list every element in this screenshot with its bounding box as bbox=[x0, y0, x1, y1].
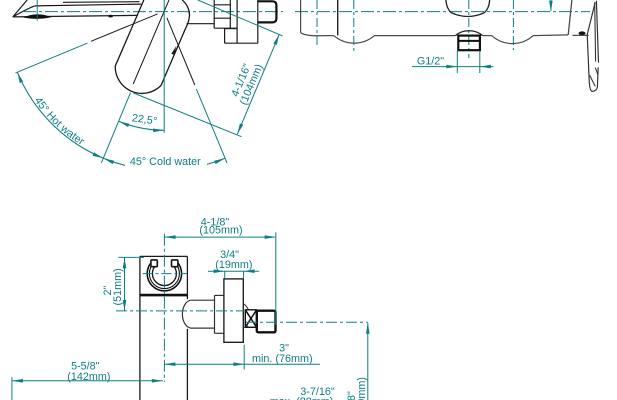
aerator (dark lens under spout) bbox=[25, 15, 50, 19]
svg-text:22,5°: 22,5° bbox=[131, 112, 158, 127]
body block vertical bbox=[236, 0, 238, 43]
hose connection nut (thick) bbox=[257, 311, 276, 333]
45deg cold water arc (left part) bbox=[103, 158, 125, 165]
142mm dim left extension bbox=[11, 377, 13, 400]
G1/2 dim extension lines bbox=[456, 51, 458, 73]
45deg cold water arc (right part) bbox=[207, 158, 225, 164]
handle lever (side view, capsule) bbox=[115, 0, 189, 93]
svg-text:(51mm): (51mm) bbox=[112, 268, 124, 305]
hot extreme handle line (black) bbox=[91, 14, 158, 41]
svg-text:45° Hot water: 45° Hot water bbox=[32, 95, 87, 148]
front body left cap joint bbox=[337, 0, 339, 35]
port centerline bbox=[468, 0, 470, 58]
bar vertical centerline bbox=[163, 234, 165, 382]
svg-text:max. (88mm): max. (88mm) bbox=[270, 396, 334, 400]
left union centerline bbox=[353, 0, 355, 52]
escutcheon bottom edge bbox=[187, 23, 215, 25]
body/nut joint vertical bbox=[257, 0, 259, 43]
side-view horizontal centerline bbox=[23, 11, 283, 13]
22.5deg arc with arrowheads bbox=[119, 121, 165, 130]
outlet boss (front view dome) bbox=[446, 0, 490, 17]
cut-off vertical dimension line (bottom right) bbox=[367, 323, 369, 400]
supply elbow cylinder bbox=[191, 299, 215, 301]
front body bottom edge with unions and port bbox=[301, 33, 334, 36]
svg-text:(19mm): (19mm) bbox=[215, 259, 252, 271]
cold radial extension line bbox=[196, 89, 227, 163]
spout outline (side view) bbox=[13, 0, 27, 17]
wall flange (side view) bbox=[224, 279, 243, 342]
holder head top edge bbox=[140, 255, 188, 257]
C-clip right horn tip bbox=[172, 260, 178, 267]
svg-text:(105mm): (105mm) bbox=[199, 225, 242, 237]
G1/2 shower port box (front view, thick) bbox=[458, 36, 480, 51]
front body left edge bbox=[300, 0, 302, 33]
cold arc arrowheads bbox=[103, 158, 114, 164]
wall bar left edge bbox=[139, 256, 141, 400]
45deg hot water arc bbox=[17, 72, 103, 158]
51mm dim top extension bbox=[118, 256, 144, 258]
label 4-1/16in (104mm), rotated bbox=[227, 58, 265, 107]
pin hole dot on spout bbox=[108, 15, 113, 18]
104mm dim extension line (lower, from lever tip) bbox=[134, 93, 242, 137]
svg-text:G1/2": G1/2" bbox=[417, 56, 444, 68]
C-clip middle ring bbox=[149, 263, 179, 289]
142mm dimension line with arrows bbox=[12, 380, 163, 382]
right union centerline bbox=[512, 0, 514, 50]
hand-shower C-clip (outer ring) bbox=[147, 261, 181, 291]
elbow step ring bbox=[214, 295, 216, 333]
holder head bottom edge (thick) bbox=[140, 294, 188, 297]
front-view horizontal centerline bbox=[295, 11, 590, 13]
C-clip inner circle bbox=[152, 265, 176, 285]
shower port box (side view) bbox=[225, 28, 238, 30]
hot radial extension line bbox=[16, 43, 88, 73]
handle set-screw dot (front view) bbox=[579, 31, 586, 35]
104mm dimension line with arrowheads bbox=[237, 34, 279, 134]
G1/2 dimension line with arrows bbox=[412, 66, 494, 68]
front body right cap (slanted) bbox=[568, 0, 572, 35]
19mm dim extension lines bbox=[224, 271, 226, 278]
105mm dimension line with arrows bbox=[165, 236, 275, 238]
threaded nipple with cross-hatch bbox=[245, 310, 256, 328]
wall bar right edge (interrupted by elbow) bbox=[186, 256, 188, 299]
19mm dimension line with outside arrows bbox=[208, 270, 259, 272]
76mm dim right extension bbox=[243, 345, 245, 370]
handle blade (front view) bbox=[587, 2, 595, 34]
short body line under dot bbox=[573, 34, 589, 36]
cut-off vertical dimension arrow (right) bbox=[550, 0, 552, 11]
104mm dim extension line (upper) bbox=[198, 0, 283, 36]
wall union nut (side view, thick) bbox=[258, 1, 277, 22]
svg-text:min. (76mm): min. (76mm) bbox=[252, 353, 313, 365]
outlet axis centerline bbox=[246, 321, 368, 323]
hot arc arrowheads bbox=[17, 72, 23, 83]
front-view vertical centerline x=317 bbox=[316, 0, 318, 48]
svg-text:(149mm): (149mm) bbox=[356, 377, 368, 400]
76mm dimension line with arrows and text underline bbox=[164, 363, 320, 365]
svg-text:45° Cold water: 45° Cold water bbox=[130, 156, 201, 168]
vertical reference centerline through pivot bbox=[163, 0, 165, 133]
lever centerline (black) bbox=[133, 0, 169, 84]
lever-axis radial extension line bbox=[101, 93, 130, 163]
elbow axis centerline bbox=[116, 310, 244, 312]
cartridge collar stack bbox=[213, 0, 215, 28]
cold extreme handle line (black) bbox=[167, 18, 195, 85]
51mm dimension line with arrows bbox=[124, 258, 126, 311]
aerator centerline bbox=[36, 0, 38, 21]
C-clip left horn tip bbox=[151, 260, 157, 267]
direction arrowhead on cold line bbox=[171, 46, 176, 55]
105mm dim extension line (right) bbox=[275, 232, 277, 325]
svg-text:(142mm): (142mm) bbox=[67, 371, 110, 383]
C-clip horizontal centerline bbox=[143, 273, 187, 275]
